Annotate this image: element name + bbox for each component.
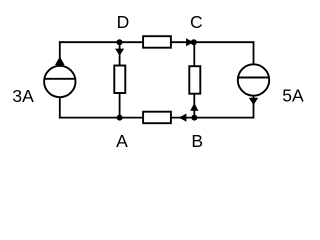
wire middle-right branch (C-B) [193,42,195,117]
resistor bottom (between A and B) [143,112,171,124]
junction dot node B [191,115,197,121]
wire bottom (A-B rail) [59,117,255,119]
current arrow below node D (down) [115,49,124,56]
junction dot node A [117,115,123,121]
current arrow above node B (up) [190,103,198,111]
svg-text:3A: 3A [12,86,34,106]
current arrow of I1 (up) [55,57,65,65]
current source I2 chord line [238,77,269,79]
junction dot node D [117,39,123,45]
svg-text:B: B [191,131,203,151]
junction dot node C [191,39,197,45]
wire right branch (5A source leg) [253,41,255,118]
wire middle-left branch (D-A) [119,42,121,117]
wire left branch (3A source leg) [59,41,61,118]
resistor right vertical (C-B branch) [189,66,200,94]
svg-text:D: D [117,12,130,32]
current arrow into node C (right) [186,38,193,46]
resistor left vertical (D-A branch) [114,66,125,94]
current source I1 chord line [44,78,75,80]
current arrow of I2 (down) [249,98,258,105]
current source I1 (3A) circle [44,66,75,97]
svg-text:C: C [190,12,203,32]
current arrow toward bottom resistor (left) [179,114,187,122]
wire top (D-C rail) [59,41,255,43]
current source I2 (5A) circle [238,64,269,95]
svg-text:A: A [116,131,128,151]
resistor top (between D and C) [143,36,171,48]
svg-text:5A: 5A [282,85,304,105]
